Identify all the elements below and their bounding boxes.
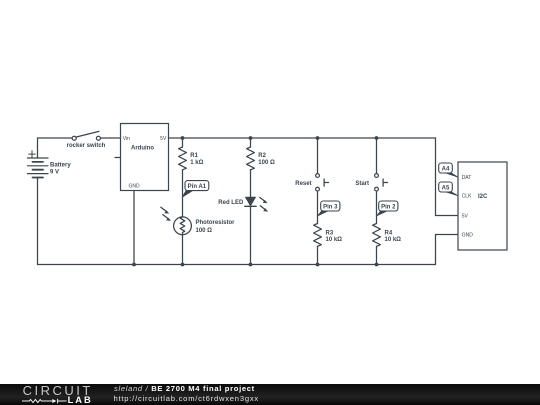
svg-text:Pin 3: Pin 3 xyxy=(323,204,338,210)
svg-text:100 Ω: 100 Ω xyxy=(258,160,275,166)
wire R4 to ground bus xyxy=(376,246,378,264)
resistor R4 xyxy=(373,224,381,247)
wire R1 to photoresistor (node Pin A1) xyxy=(182,170,184,217)
resistor R2 xyxy=(247,147,255,170)
junction top bus at Start xyxy=(375,136,379,140)
footer bar xyxy=(0,384,540,405)
junction top bus at Reset xyxy=(316,136,320,140)
rocker switch SW1 xyxy=(72,131,100,140)
svg-text:I2C: I2C xyxy=(478,194,488,200)
caption url text xyxy=(114,395,259,403)
photoresistor 100 ohm xyxy=(161,207,192,235)
junction ground bus at LED xyxy=(249,263,253,267)
wire Start switch to R4 (node Pin 2) xyxy=(376,191,378,223)
svg-text:Vin: Vin xyxy=(123,136,130,142)
wire 5V bus to Start switch xyxy=(376,138,378,174)
svg-text:Pin A1: Pin A1 xyxy=(188,184,207,190)
wire LED cathode to ground bus xyxy=(250,206,252,264)
resistor R1 xyxy=(179,147,187,170)
svg-text:Start: Start xyxy=(355,181,369,187)
wire 5V bus to Reset switch xyxy=(317,138,319,174)
svg-text:GND: GND xyxy=(462,233,474,239)
svg-text:1 kΩ: 1 kΩ xyxy=(190,160,203,166)
svg-text:Photoresistor: Photoresistor xyxy=(196,220,236,226)
CircuitLab logo wordmark LAB xyxy=(68,396,93,405)
svg-text:Pin 2: Pin 2 xyxy=(381,204,396,210)
wire ground bus with branch to I2C GND xyxy=(38,235,459,265)
svg-text:Reset: Reset xyxy=(295,181,311,187)
wire battery top lead to rocker switch xyxy=(38,138,73,158)
junction ground bus at R3 xyxy=(316,263,320,267)
wire photoresistor to ground bus xyxy=(182,235,184,265)
resistor R3 xyxy=(314,224,322,247)
svg-text:Battery: Battery xyxy=(50,162,71,168)
svg-text:A4: A4 xyxy=(442,166,450,172)
LED D1 Red LED xyxy=(245,197,268,212)
svg-text:A5: A5 xyxy=(442,185,450,191)
junction ground bus at Arduino GND xyxy=(132,263,136,267)
svg-text:100 Ω: 100 Ω xyxy=(196,228,213,234)
svg-text:R2: R2 xyxy=(258,153,266,159)
junction top bus at R1 xyxy=(181,136,185,140)
IC U1 Arduino module box xyxy=(115,124,169,191)
pushbutton Start xyxy=(375,174,388,191)
svg-text:10 kΩ: 10 kΩ xyxy=(326,237,343,243)
svg-text:R1: R1 xyxy=(190,153,198,159)
wire Reset switch to R3 (node Pin 3) xyxy=(317,191,319,223)
svg-text:DAT: DAT xyxy=(462,175,472,181)
wire battery negative lead down to ground bus xyxy=(37,178,39,265)
junction ground bus at R4 xyxy=(375,263,379,267)
wire R2 to LED anode xyxy=(250,170,252,197)
wire 5V bus from Arduino to I2C 5V xyxy=(169,138,459,216)
wire R2 top lead xyxy=(250,138,252,147)
node A5 callout xyxy=(439,182,458,196)
svg-text:R3: R3 xyxy=(326,230,334,236)
svg-text:Red LED: Red LED xyxy=(218,200,244,206)
node Pin A1 callout xyxy=(182,181,209,198)
junction top bus at R2 xyxy=(249,136,253,140)
svg-text:rocker switch: rocker switch xyxy=(67,143,106,149)
svg-text:9 V: 9 V xyxy=(50,170,59,176)
node Pin 3 callout xyxy=(318,201,340,216)
CircuitLab logo wordmark CIRCUIT xyxy=(23,384,93,397)
CircuitLab logo resistor and diode glyph xyxy=(21,397,68,405)
svg-text:5V: 5V xyxy=(160,136,167,142)
svg-text:Arduino: Arduino xyxy=(131,145,154,151)
battery BAT1 9V xyxy=(28,151,49,178)
pushbutton Reset xyxy=(316,174,329,191)
svg-text:5V: 5V xyxy=(462,214,469,220)
svg-text:10 kΩ: 10 kΩ xyxy=(385,237,402,243)
svg-text:CLK: CLK xyxy=(462,194,472,200)
wire rocker switch to Arduino Vin xyxy=(100,137,120,139)
node Pin 2 callout xyxy=(377,201,398,216)
svg-text:R4: R4 xyxy=(385,230,393,236)
wire R3 to ground bus xyxy=(317,246,319,264)
wire Arduino GND down to ground bus xyxy=(133,191,135,265)
node A4 callout xyxy=(439,163,458,177)
IC I2C module box xyxy=(458,162,507,250)
caption title text xyxy=(114,385,255,393)
junction ground bus at photoresistor xyxy=(181,263,185,267)
svg-text:GND: GND xyxy=(128,184,140,190)
wire R1 top lead xyxy=(182,138,184,147)
